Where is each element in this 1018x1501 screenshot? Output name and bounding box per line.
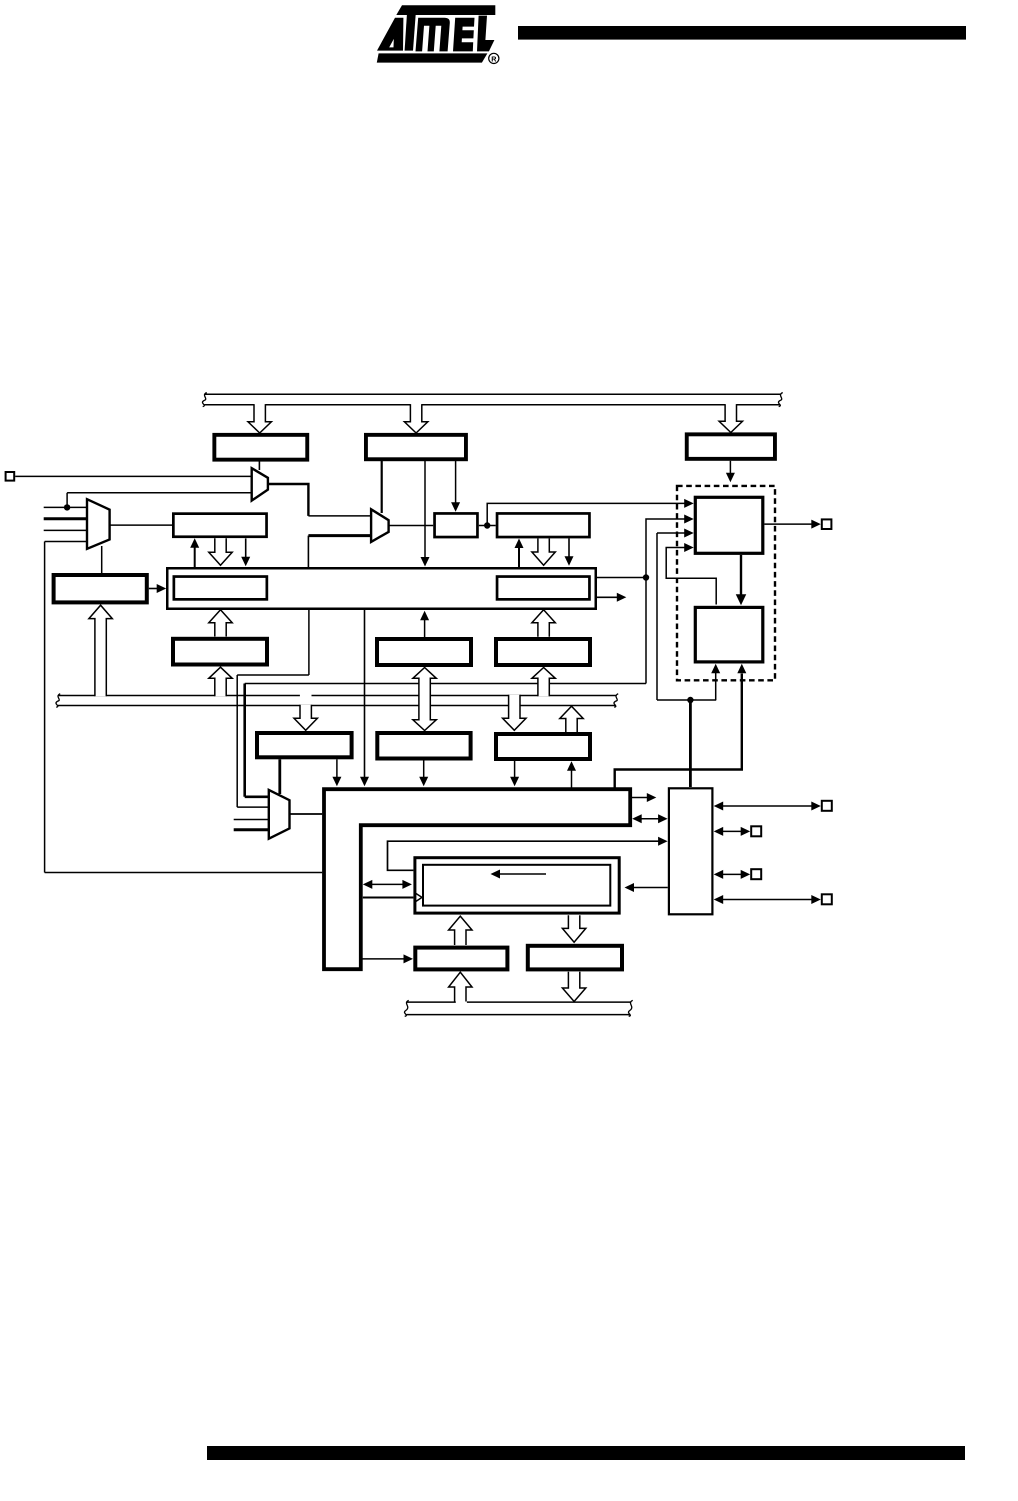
box C (row1 right) [687,434,775,459]
box S inner [423,865,610,906]
junction dot above port block [687,697,693,703]
wire: long left feedback vertical [44,542,46,873]
wire: box A to mux1 [258,461,260,470]
hollow arrow: box K up into registers [532,610,555,637]
port pin square 2 [751,826,761,836]
port pin square 3 [751,869,761,879]
box B (row1 middle) [366,435,466,459]
hollow arrow: box I up into registers [209,610,232,637]
double arrow: data bus / shifter [371,883,404,885]
wire: U1 input 4 loop from U2 [666,548,716,605]
double arrow: data bus box / port block [641,818,660,820]
hollow arrow: bus to box C [719,404,742,432]
bus break mark left of middle bus [56,694,60,708]
wire: mux2 output [389,525,434,527]
wire: box B to mux2 select [381,461,383,513]
box J (row3 middle) [377,639,471,665]
wire: U1 output to port pin [764,523,812,525]
bus break mark left of top bus [202,393,206,407]
wire: registers output down control [656,533,658,700]
hollow arrow: bus down into box M [503,695,526,731]
box U (row5 right) [528,946,622,970]
bus: program bus (top) [205,393,781,395]
wire: feedback to data-bus box [45,872,323,874]
box V (small register) [435,513,478,537]
bus: data bus (middle) [58,695,300,697]
arrow: box C down into timer block [729,461,731,474]
box A (row1 left) [214,435,307,460]
arrow: up into U2 bottom [715,673,717,701]
arrow: register block up into box E [194,547,196,568]
hollow arrow: box M up into bus [560,706,583,732]
wire: junction down into port block (thick) [689,700,692,787]
wire: control drop left (thick) [243,684,246,797]
wire: registers tap down [308,610,310,675]
wire: from data bus box up to U2 (thick) [615,674,742,790]
arrow: box E down to register block (write) [245,538,247,557]
wire: register block output to junction [597,577,646,579]
wire: mux4 input 1 (thick) [245,795,270,798]
wire: mux2 lower input (thick) [308,534,371,537]
wire: to mux2 upper input [308,515,371,517]
Atmel logo [377,5,499,63]
arrow: register block up into box F [518,547,520,568]
bus break mark left of bottom bus [404,1000,408,1016]
double arrow: port block / pin 4 [722,899,813,901]
wire: mux3 input 1 [44,506,88,508]
wire: mux4 stub input 3 [234,819,270,821]
wire: box L1 to mux4 (thick) [278,759,281,794]
hollow arrow: bus to box B [404,404,427,433]
box N (data bus block, L-shape) [324,789,630,969]
double arrow: port block / pin 1 [722,805,813,807]
clock wedge on shifter [416,893,422,901]
header rule bar [518,26,966,40]
wire: control line horizontal [245,683,646,685]
arrow: U1 down to U2 (thick) [740,555,742,595]
wire: register tap horizontal [237,674,309,676]
arrow: register block short output [597,596,618,598]
wire: mux3 output to instruction register [110,524,172,526]
box D (instruction decoder) [54,575,147,602]
box P (I/O port block) [669,788,713,914]
footer rule bar [207,1446,965,1460]
wire: clock line to shifter [363,897,414,899]
arrow: box D to register block [149,588,158,590]
double arrow: port block / pin 3 [722,873,742,875]
wire: junction down the control line [645,578,647,684]
hollow arrow: bus up into box T [449,972,472,1001]
box L1 (row4 left) [257,733,352,757]
wire: mux4 stub input 4 (thick) [234,828,270,831]
bus: I/O data bus (bottom) [407,1001,456,1003]
arrow: box L2 down to data bus box [423,761,425,778]
wire: box B down to box V [455,461,457,503]
wire: mux3 input 4 from left feedback line [45,541,88,543]
wire: shifter loop into port block [388,841,660,870]
wire: junction up and right to U1 input 1 [487,503,685,525]
port pin square (timer out) [822,519,832,529]
hollow arrow: bus up into box K [532,668,555,697]
port pin square 1 [822,801,832,811]
junction dot [64,504,70,510]
wire: registers down to data bus box [364,610,366,778]
arrow inside shift register (shift direction) [500,873,546,875]
hollow arrow: box U down into bus [562,972,585,1002]
arrow: data bus box up into box M [571,770,573,790]
arrow: data bus box to box T [361,958,405,960]
wire: mux1 output bend [268,484,309,516]
wire: mux3 input 3 [44,529,88,531]
hollow arrow: bus up into box I [209,667,232,696]
wire: mux4 output to data bus box [290,813,323,815]
wire: mux1 second input [67,492,252,494]
wire: box V to box F with junction [479,525,496,527]
box H2 (register window right) [497,577,589,600]
box U2 (timer counter) [695,607,763,662]
hollow arrow: box E down to register block [209,538,232,565]
hollow arrow: box F down to register block [532,539,555,566]
wire: register file tap up to mux2 [307,536,309,567]
box I (row3 left) [173,639,267,665]
box T (row5 left) [415,948,507,970]
bus break mark right of middle bus [614,694,618,708]
box U1 (timer control) [695,497,763,553]
wire: mux3 to instruction decoder [101,546,103,573]
dashed block boundary (timer module) [677,486,775,680]
wire: box B down to ALU [424,461,426,558]
wire: tap drop to mux4 [236,675,238,807]
wire: mux4 input 2 [237,806,270,808]
arrow: port block to shifter [633,887,668,889]
hollow arrow: shift register down into box U [562,915,585,942]
wire: mux3 input 2 (thick) [44,517,88,520]
svg-text:R: R [491,55,497,64]
port pin square top-left [6,472,15,481]
box S outer (shift register) [415,858,619,913]
box E (instruction register) [173,514,266,537]
wire: port to mux1 input [15,475,252,477]
box F (status register) [497,513,589,537]
arrow: box F down to register block (write) [568,538,570,557]
hollow arrow: box J to box L2 (double) [413,668,436,731]
box L2 (row4 middle) [377,733,470,759]
mux2 (middle mux) [371,509,389,542]
wire: horizontal to junction above port block [657,699,716,701]
bus break mark right of bottom bus [628,1000,632,1016]
mux1 (under box A) [252,468,268,500]
port pin square 4 [822,894,832,904]
box K (row3 right) [496,639,590,665]
wire: vertical drop to junction [66,493,68,508]
arrow: box L1 down to data bus box [336,759,338,777]
bus break mark right of top bus [778,393,782,407]
box H1 (register window left) [174,577,267,600]
hollow arrow: bus down into box L1 [294,705,317,731]
arrow: data bus box toward port block [632,797,648,799]
double arrow: port block / pin 2 [722,830,742,832]
hollow arrow: bus up into box D [89,605,112,696]
wire: U1 input 2 from junction [646,519,685,578]
wire: U1 input 3 [657,532,685,534]
arrow: box J up into registers [424,620,426,638]
arrow: box M down to data bus box [514,761,516,778]
box M (row4 right) [496,734,590,759]
hollow arrow: bus to box A [248,404,271,433]
hollow arrow: box T up into shift register [449,916,472,945]
box G (general purpose registers) [167,568,596,609]
